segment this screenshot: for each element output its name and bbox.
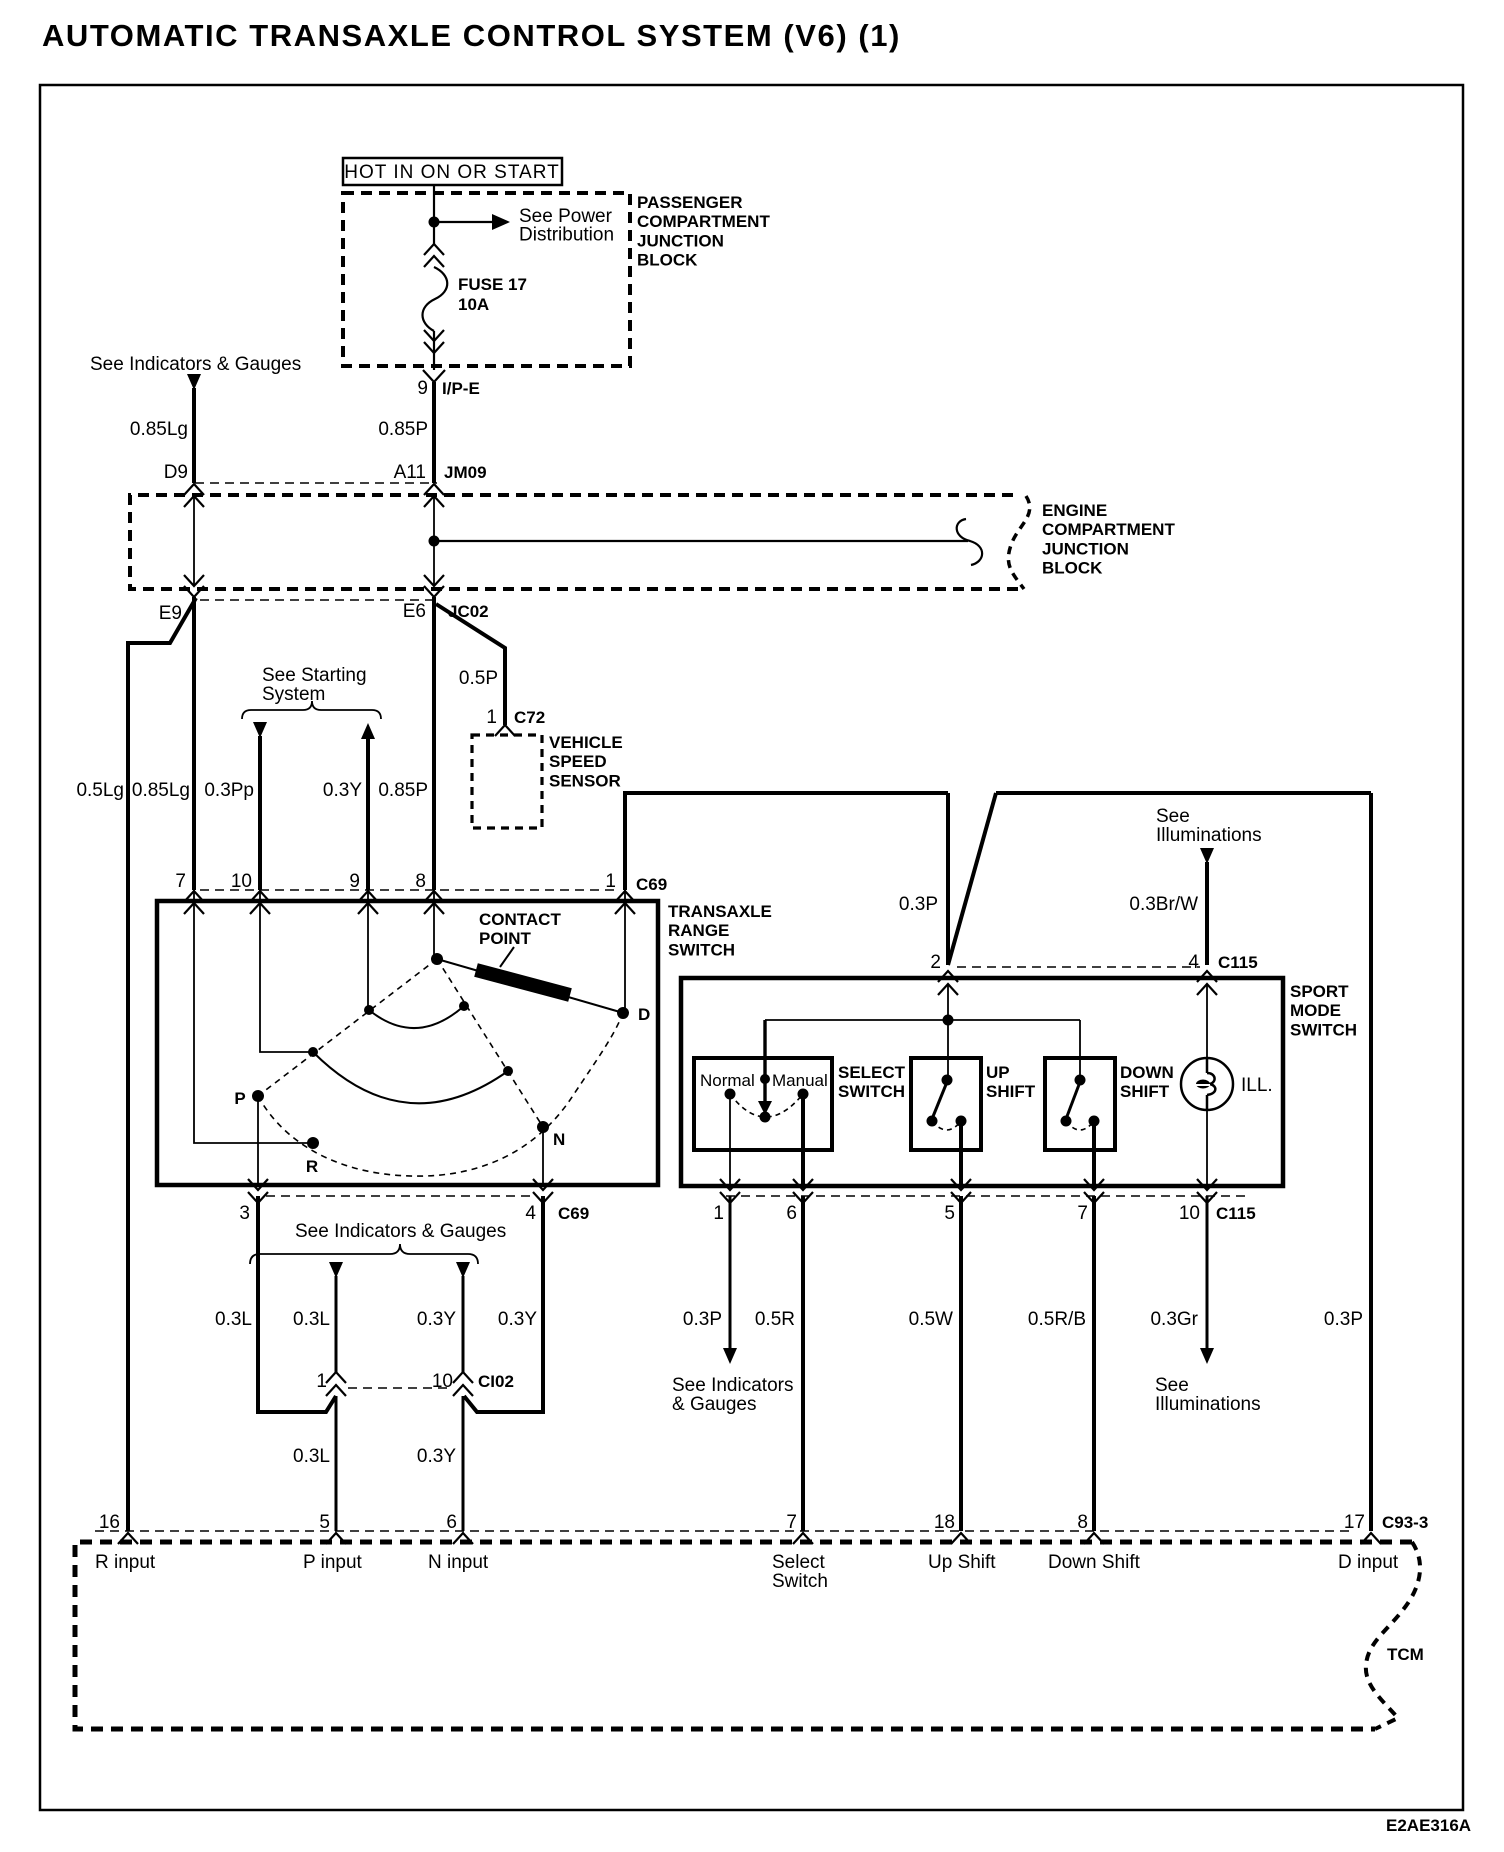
- connector I/P-E pin 9: [423, 370, 445, 382]
- svg-text:E2AE316A: E2AE316A: [1386, 1816, 1471, 1835]
- wire down to C115 pin2: [946, 793, 950, 965]
- wire see power distribution arrow: [434, 221, 492, 223]
- wire lamp out: [1206, 1110, 1208, 1186]
- svg-text:See Indicators & Gauges: See Indicators & Gauges: [295, 1221, 506, 1242]
- wire internal bus: [765, 1019, 1080, 1021]
- wire normal out: [729, 1094, 731, 1186]
- wire 0.3Y (mid): [462, 1276, 465, 1372]
- wire 0.5R to TCM pin7: [801, 1196, 805, 1531]
- svg-text:E9: E9: [159, 603, 182, 624]
- chevron TCM pin6: [453, 1533, 473, 1544]
- chevron TCM pin18: [951, 1533, 971, 1544]
- svg-text:8: 8: [1077, 1512, 1088, 1533]
- svg-text:9: 9: [417, 378, 428, 399]
- svg-text:7: 7: [786, 1512, 797, 1533]
- chevron TCM pin8: [1084, 1533, 1104, 1544]
- svg-text:10: 10: [231, 871, 252, 892]
- svg-text:0.3Y: 0.3Y: [417, 1309, 456, 1330]
- node contact 9: [364, 1005, 374, 1015]
- svg-text:Up Shift: Up Shift: [928, 1552, 996, 1573]
- chevrons C69 pin7: [184, 891, 204, 914]
- wire from TCM D-input across top: [996, 791, 1371, 795]
- wire 0.5W to TCM pin18: [959, 1196, 963, 1531]
- chevrons C69 pin8: [424, 891, 444, 914]
- svg-text:SELECTSWITCH: SELECTSWITCH: [838, 1063, 906, 1101]
- svg-text:D input: D input: [1338, 1552, 1399, 1573]
- svg-text:10: 10: [432, 1371, 453, 1392]
- svg-text:0.3L: 0.3L: [215, 1309, 252, 1330]
- svg-text:P: P: [234, 1089, 245, 1108]
- node D: [617, 1007, 629, 1019]
- chevrons C69 pin9: [358, 891, 378, 914]
- wire pin7 to R: [194, 890, 313, 1143]
- svg-text:JM09: JM09: [444, 463, 487, 482]
- wire down shift out: [1092, 1121, 1096, 1186]
- svg-text:18: 18: [934, 1512, 955, 1533]
- vehicle speed sensor dashed box: [472, 735, 542, 828]
- svg-text:CI02: CI02: [478, 1372, 514, 1391]
- chevrons C69 pin10: [250, 891, 270, 914]
- chevrons C69 pin1: [615, 891, 635, 914]
- svg-text:0.5P: 0.5P: [459, 668, 498, 689]
- wire C69 pin1 up and across: [625, 793, 948, 890]
- svg-text:0.3P: 0.3P: [1324, 1309, 1363, 1330]
- arrow down to 0.3Y: [456, 1262, 470, 1278]
- svg-text:4: 4: [525, 1203, 536, 1224]
- wire bus to down shift contact: [1079, 1020, 1081, 1080]
- wire fuse to I/P-E: [433, 331, 435, 370]
- wire 0.3L (mid): [335, 1276, 338, 1372]
- fuse 17 10A element: [423, 267, 448, 331]
- svg-text:R: R: [306, 1157, 318, 1176]
- node N: [537, 1121, 549, 1133]
- wire bus with hook end: [434, 540, 968, 542]
- wiper arc inner: [369, 1006, 464, 1028]
- chevrons C115 pin5: [951, 1179, 971, 1203]
- dashed box with wavy right edge: [130, 495, 1022, 589]
- chevrons E9: [184, 575, 204, 597]
- svg-text:1: 1: [713, 1203, 724, 1224]
- TCM wavy right edge: [1366, 1542, 1420, 1729]
- chevrons CI02 pin10: [453, 1372, 473, 1396]
- rotor dashed radial to P: [258, 959, 437, 1096]
- wiper arc outer: [313, 1052, 508, 1103]
- node select common: [760, 1112, 771, 1123]
- wire 0.5P elbow: [436, 604, 505, 725]
- node up shift top: [942, 1075, 953, 1086]
- svg-text:R input: R input: [95, 1552, 156, 1573]
- down shift box: [1045, 1058, 1115, 1150]
- chevron TCM pin16: [118, 1533, 138, 1544]
- svg-text:N input: N input: [428, 1552, 489, 1573]
- wire 0.3Y: [366, 737, 370, 890]
- brace: [250, 1244, 478, 1264]
- svg-text:0.5R: 0.5R: [755, 1309, 795, 1330]
- svg-text:6: 6: [446, 1512, 457, 1533]
- svg-text:1: 1: [605, 871, 616, 892]
- svg-text:DOWNSHIFT: DOWNSHIFT: [1120, 1063, 1174, 1101]
- wire 0.3P D-input to TCM pin17: [1369, 793, 1373, 1531]
- svg-text:5: 5: [319, 1512, 330, 1533]
- rotor dashed outer arc P-R-N-D: [258, 1013, 623, 1176]
- svg-text:0.3P: 0.3P: [683, 1309, 722, 1330]
- node manual contact: [798, 1089, 809, 1100]
- select switch box: [694, 1058, 832, 1150]
- svg-text:3: 3: [239, 1203, 250, 1224]
- svg-text:6: 6: [786, 1203, 797, 1224]
- chevrons C69 pin4: [533, 1179, 553, 1203]
- svg-text:5: 5: [944, 1203, 955, 1224]
- svg-text:0.3Br/W: 0.3Br/W: [1129, 894, 1198, 915]
- chevrons C115 pin4: [1197, 971, 1217, 995]
- wire 0.5Lg elbow to left column: [128, 598, 196, 1531]
- wire 0.3P with arrow (see indicators): [729, 1196, 732, 1350]
- wire pin9 to contact: [367, 890, 369, 1010]
- svg-text:0.85Lg: 0.85Lg: [132, 780, 190, 801]
- svg-text:P input: P input: [303, 1552, 363, 1573]
- wire bus to select wiper with arrow: [763, 1020, 766, 1104]
- wire bus to up shift contact: [947, 1020, 949, 1080]
- svg-text:TCM: TCM: [1387, 1645, 1424, 1664]
- wire 0.85P: [432, 382, 436, 483]
- node junction dot in block: [429, 536, 440, 547]
- svg-text:See PowerDistribution: See PowerDistribution: [519, 206, 614, 246]
- svg-text:0.3Y: 0.3Y: [417, 1446, 456, 1467]
- svg-text:HOT IN ON OR START: HOT IN ON OR START: [344, 162, 559, 183]
- wire pin10 to P-row contact: [260, 890, 313, 1052]
- wire inside block (left): [193, 496, 195, 586]
- contact point wiper line: [437, 959, 620, 1012]
- chevron TCM pin5: [326, 1533, 346, 1544]
- svg-text:C115: C115: [1216, 1204, 1256, 1223]
- node junction dot: [429, 217, 440, 228]
- wire 0.85P down to C69 pin 8: [432, 597, 436, 890]
- wire 0.85Lg down to C69 pin 7: [192, 597, 196, 890]
- svg-text:JC02: JC02: [448, 602, 489, 621]
- svg-text:C72: C72: [514, 708, 545, 727]
- wire 0.3Y from pin4: [464, 1196, 543, 1412]
- node R: [307, 1137, 319, 1149]
- wire diagonal to C115 pin2: [948, 793, 996, 965]
- wire manual out: [801, 1094, 805, 1186]
- chevrons CI02 pin1: [326, 1372, 346, 1396]
- connector chevrons A11: [424, 484, 444, 507]
- svg-text:N: N: [553, 1130, 565, 1149]
- svg-text:0.5R/B: 0.5R/B: [1028, 1309, 1086, 1330]
- down shift lever: [1066, 1082, 1080, 1119]
- svg-text:0.3Pp: 0.3Pp: [204, 780, 254, 801]
- svg-text:E6: E6: [403, 601, 426, 622]
- wire 0.3Y to TCM pin6: [462, 1396, 465, 1531]
- svg-text:0.3L: 0.3L: [293, 1446, 330, 1467]
- fuse connector chevrons bottom: [424, 330, 444, 353]
- svg-text:2: 2: [930, 952, 941, 973]
- svg-text:D: D: [638, 1005, 650, 1024]
- wire pin1 to D: [624, 890, 626, 1013]
- svg-text:Manual: Manual: [772, 1071, 828, 1090]
- chevron TCM pin17: [1361, 1533, 1381, 1544]
- svg-text:16: 16: [99, 1512, 120, 1533]
- svg-text:0.85P: 0.85P: [378, 780, 428, 801]
- dashed arc down shift: [1066, 1121, 1094, 1130]
- up shift lever: [932, 1082, 947, 1119]
- contact point bar: [476, 970, 570, 995]
- node select feed: [760, 1074, 770, 1084]
- node up shift left: [927, 1116, 938, 1127]
- svg-text:0.3P: 0.3P: [899, 894, 938, 915]
- svg-text:4: 4: [1188, 952, 1199, 973]
- svg-text:9: 9: [349, 871, 360, 892]
- chevrons C115 pin6: [793, 1179, 813, 1203]
- node P: [252, 1090, 264, 1102]
- svg-text:10: 10: [1179, 1203, 1200, 1224]
- node down shift left: [1061, 1116, 1072, 1127]
- svg-text:17: 17: [1344, 1512, 1365, 1533]
- svg-text:C69: C69: [636, 875, 667, 894]
- wire 0.3Gr with arrow (see illuminations): [1206, 1196, 1209, 1350]
- TCM dashed box: [75, 1542, 1412, 1729]
- chevrons C115 pin7: [1084, 1179, 1104, 1203]
- arrow 0.3Pp (down): [253, 722, 267, 738]
- svg-text:0.3Y: 0.3Y: [498, 1309, 537, 1330]
- node up shift right: [956, 1116, 967, 1127]
- dashed wiper arc select: [730, 1094, 803, 1117]
- node contact outer-right: [503, 1066, 513, 1076]
- chevrons C115 pin10: [1197, 1179, 1217, 1203]
- chevron TCM pin7: [793, 1533, 813, 1544]
- arrow from indicators: [187, 374, 201, 390]
- wire 0.85Lg: [192, 388, 196, 483]
- wire 0.3Pp: [258, 736, 262, 890]
- connector chevrons D9: [184, 484, 204, 507]
- svg-text:Normal: Normal: [700, 1071, 755, 1090]
- svg-text:C115: C115: [1218, 953, 1258, 972]
- node down shift top: [1075, 1075, 1086, 1086]
- arrow 0.3Y (up): [361, 723, 375, 739]
- svg-text:0.5Lg: 0.5Lg: [76, 780, 124, 801]
- svg-text:See Indicators & Gauges: See Indicators & Gauges: [90, 354, 301, 375]
- svg-text:1: 1: [486, 707, 497, 728]
- chevrons E6: [424, 575, 444, 597]
- node down shift right: [1089, 1116, 1100, 1127]
- wire pin8 to pivot: [433, 890, 435, 959]
- svg-text:AUTOMATIC TRANSAXLE CONTROL SY: AUTOMATIC TRANSAXLE CONTROL SYSTEM (V6) …: [42, 18, 901, 53]
- wire 0.3Br/W: [1205, 862, 1209, 965]
- wire N to pin4: [542, 1130, 544, 1185]
- svg-text:C93-3: C93-3: [1382, 1513, 1428, 1532]
- svg-text:0.85Lg: 0.85Lg: [130, 419, 188, 440]
- node bus junction: [943, 1015, 954, 1026]
- svg-text:1: 1: [316, 1371, 327, 1392]
- node contact inner-right: [459, 1001, 469, 1011]
- wire pin4 to lamp: [1206, 984, 1208, 1058]
- dashed arc up shift: [932, 1121, 961, 1130]
- wire P to pin3: [257, 1100, 259, 1185]
- node contact 10: [308, 1047, 318, 1057]
- svg-text:C69: C69: [558, 1204, 589, 1223]
- arrow down to 0.3L: [329, 1262, 343, 1278]
- brace: [242, 701, 381, 719]
- wire 0.3L from pin3: [258, 1196, 336, 1412]
- fuse F17 connector chevrons top: [424, 244, 444, 267]
- wire from HOT box to fuse: [433, 185, 435, 244]
- rotor dashed radial to N: [437, 959, 543, 1127]
- up shift box: [911, 1058, 981, 1150]
- svg-text:0.85P: 0.85P: [378, 419, 428, 440]
- wire 0.3L to TCM pin5: [335, 1396, 338, 1531]
- node normal contact: [725, 1089, 736, 1100]
- svg-text:ILL.: ILL.: [1241, 1075, 1273, 1096]
- svg-text:0.3Gr: 0.3Gr: [1150, 1309, 1198, 1330]
- wire pin2 into box: [947, 984, 949, 1020]
- chevrons C115 pin1: [720, 1179, 740, 1203]
- svg-text:0.3L: 0.3L: [293, 1309, 330, 1330]
- wire up shift out: [959, 1121, 963, 1186]
- svg-text:7: 7: [175, 871, 186, 892]
- lamp ILL: [1181, 1058, 1233, 1110]
- node pivot: [431, 953, 443, 965]
- chevrons C69 pin3: [248, 1179, 268, 1203]
- svg-text:7: 7: [1077, 1203, 1088, 1224]
- box HOT IN ON OR START: [343, 158, 562, 185]
- chevrons C115 pin2: [938, 971, 958, 995]
- svg-text:I/P-E: I/P-E: [442, 379, 480, 398]
- svg-text:Down Shift: Down Shift: [1048, 1552, 1141, 1573]
- svg-text:D9: D9: [164, 462, 188, 483]
- svg-text:0.5W: 0.5W: [909, 1309, 953, 1330]
- wire 0.5R/B to TCM pin8: [1092, 1196, 1096, 1531]
- svg-text:8: 8: [415, 871, 426, 892]
- svg-text:SelectSwitch: SelectSwitch: [772, 1552, 828, 1592]
- svg-text:A11: A11: [394, 462, 426, 483]
- wire inside block (right): [433, 496, 435, 586]
- passenger compartment junction block (dashed box): [343, 193, 630, 366]
- svg-text:0.3Y: 0.3Y: [323, 780, 362, 801]
